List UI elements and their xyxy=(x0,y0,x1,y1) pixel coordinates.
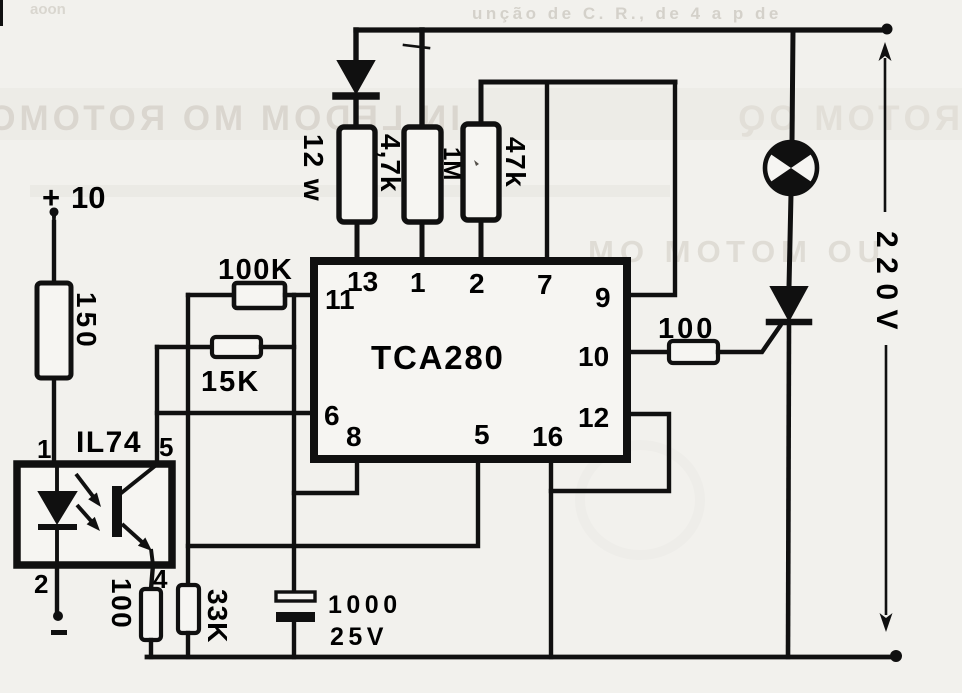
wire R1 bottom to pin 13 xyxy=(355,222,360,261)
svg-text:5: 5 xyxy=(474,419,490,450)
wire R2 bottom to pin 1 xyxy=(420,222,425,261)
svg-text:IL74: IL74 xyxy=(76,426,142,459)
svg-text:1: 1 xyxy=(410,267,426,298)
scan edge artifact top-left xyxy=(0,0,3,26)
triac SCR1 xyxy=(771,287,807,320)
light arrow 2 xyxy=(77,505,93,523)
resistor R7 (100 gate) xyxy=(669,341,718,363)
svg-text:10: 10 xyxy=(71,180,105,215)
wire pin 12 loop to pin16 drop xyxy=(551,414,669,491)
wire R3 top up xyxy=(479,82,484,124)
wire triac cathode to bottom rail xyxy=(788,322,789,657)
svg-text:220V: 220V xyxy=(870,231,903,339)
svg-text:100: 100 xyxy=(658,313,715,345)
phototransistor collector xyxy=(120,466,155,494)
wire R4 bottom to opto pin1 xyxy=(52,378,56,464)
wire pin 8 to x294 bus xyxy=(294,459,357,493)
IC U1 TCA280 body xyxy=(314,261,627,459)
resistor R1 (12 w) xyxy=(339,127,375,222)
svg-text:15K: 15K xyxy=(201,366,260,398)
wire from top rail to R2 top xyxy=(419,30,424,127)
opto pin4 inner lead xyxy=(151,549,153,565)
svg-text:4,7k: 4,7k xyxy=(375,134,406,193)
svg-text:ROTOM OQ: ROTOM OQ xyxy=(734,99,960,138)
220V dimension arrow down xyxy=(885,345,888,615)
node minus terminal dot xyxy=(53,611,63,621)
svg-text:25V: 25V xyxy=(330,623,388,651)
wire 15K right lead to x294 bus xyxy=(261,345,294,349)
svg-text:47k: 47k xyxy=(500,137,531,188)
opto LED D2 xyxy=(39,492,76,523)
node +10 terminal teardrop xyxy=(50,207,59,228)
svg-text:100: 100 xyxy=(106,578,137,629)
svg-text:13: 13 xyxy=(347,266,378,297)
wire pin 6 horizontal xyxy=(157,411,314,415)
svg-text:7: 7 xyxy=(537,269,553,300)
resistor R9 (33K) xyxy=(178,585,199,633)
phototransistor emitter xyxy=(122,524,144,544)
svg-text:4: 4 xyxy=(153,564,168,594)
svg-text:2: 2 xyxy=(34,569,48,599)
resistor R8 (100) xyxy=(141,589,161,640)
wire pin 7 riser xyxy=(545,82,549,261)
wire gate lead to triac xyxy=(718,326,780,352)
svg-text:9: 9 xyxy=(595,282,611,313)
220V dimension arrow up xyxy=(879,42,892,61)
wire top rail to lamp xyxy=(792,30,793,142)
svg-text:unção de C. R., de 4 a p de: unção de C. R., de 4 a p de xyxy=(472,4,782,23)
resistor R2 (4,7k) xyxy=(404,127,441,222)
wire R3 bottom to pin 2 xyxy=(479,220,484,261)
resistor R3 (1M pot body) xyxy=(463,124,499,220)
svg-text:5: 5 xyxy=(159,432,173,462)
light arrow 1 xyxy=(76,474,95,499)
svg-text:2: 2 xyxy=(469,268,485,299)
lamp LP1 xyxy=(765,142,817,194)
opto LED anode lead xyxy=(55,467,59,492)
wire cap to bottom rail xyxy=(292,619,296,657)
wire pin 5 of IC to x188 bus xyxy=(188,459,478,546)
resistor R4 (150) xyxy=(37,283,71,378)
wire bottom rail xyxy=(147,655,897,660)
svg-text:16: 16 xyxy=(532,421,563,452)
svg-text:100K: 100K xyxy=(218,254,293,286)
opto LED cathode lead xyxy=(55,529,59,562)
resistor R6 (15K) xyxy=(212,337,261,357)
label minus terminal xyxy=(51,630,67,635)
wire vertical bus x188 (100K to 33K) xyxy=(186,295,190,585)
svg-text:1: 1 xyxy=(37,434,51,464)
svg-text:8: 8 xyxy=(346,421,362,452)
wire pin 10 lead xyxy=(627,350,669,354)
wire pin 16 drop to bottom rail xyxy=(549,459,553,657)
svg-text:6: 6 xyxy=(324,400,340,431)
node bottom-right dot xyxy=(890,650,902,662)
capacitor C1 bottom plate xyxy=(276,612,315,622)
wire +10 feed to R4 (150) xyxy=(52,222,56,283)
resistor R5 (100K) xyxy=(234,283,285,308)
svg-text:IN LEDOM MO ROTOMO: IN LEDOM MO ROTOMO xyxy=(0,99,460,138)
svg-text:1M: 1M xyxy=(438,147,465,180)
wire lamp to triac anode xyxy=(789,194,791,287)
node top-right junction dot xyxy=(882,24,893,35)
wire diode cathode to R1 top xyxy=(353,100,358,127)
wire 100K right lead to pin 11 xyxy=(285,293,314,297)
wire R8 bottom to rail xyxy=(149,640,153,657)
wire opto pin5 riser x157 xyxy=(155,347,159,464)
svg-text:TCA280: TCA280 xyxy=(371,339,505,376)
wire small tick artifact on R2 branch xyxy=(404,45,429,48)
phototransistor Q1 base bar xyxy=(112,486,122,537)
wire 15K left lead xyxy=(157,345,212,349)
wire from top rail to diode anode xyxy=(353,30,358,63)
capacitor C1 (1000/25V) top plate xyxy=(276,592,315,601)
svg-text:33K: 33K xyxy=(202,589,233,643)
wire right drop to pin 9 xyxy=(627,82,675,295)
wire R9 bottom to rail xyxy=(186,633,190,657)
svg-text:1000: 1000 xyxy=(328,591,402,619)
svg-text:150: 150 xyxy=(71,292,102,351)
speck artifact near 1M xyxy=(474,160,479,166)
svg-text:aoon: aoon xyxy=(30,1,66,18)
svg-text:12 w: 12 w xyxy=(298,134,329,203)
wire horizontal link R3 top to right drop xyxy=(481,80,675,85)
diode D1 xyxy=(338,61,374,93)
wire top supply rail xyxy=(356,27,888,32)
optocoupler U2 IL74 body xyxy=(17,464,172,565)
svg-text:10: 10 xyxy=(578,341,609,372)
wire opto pin4 to R8 (100) xyxy=(151,565,153,589)
wire opto pin2 to minus terminal xyxy=(55,565,59,614)
wire vertical bus x294 (pin11 node to capacitor) xyxy=(292,295,296,592)
wire 100K left lead xyxy=(188,293,234,297)
svg-text:12: 12 xyxy=(578,402,609,433)
